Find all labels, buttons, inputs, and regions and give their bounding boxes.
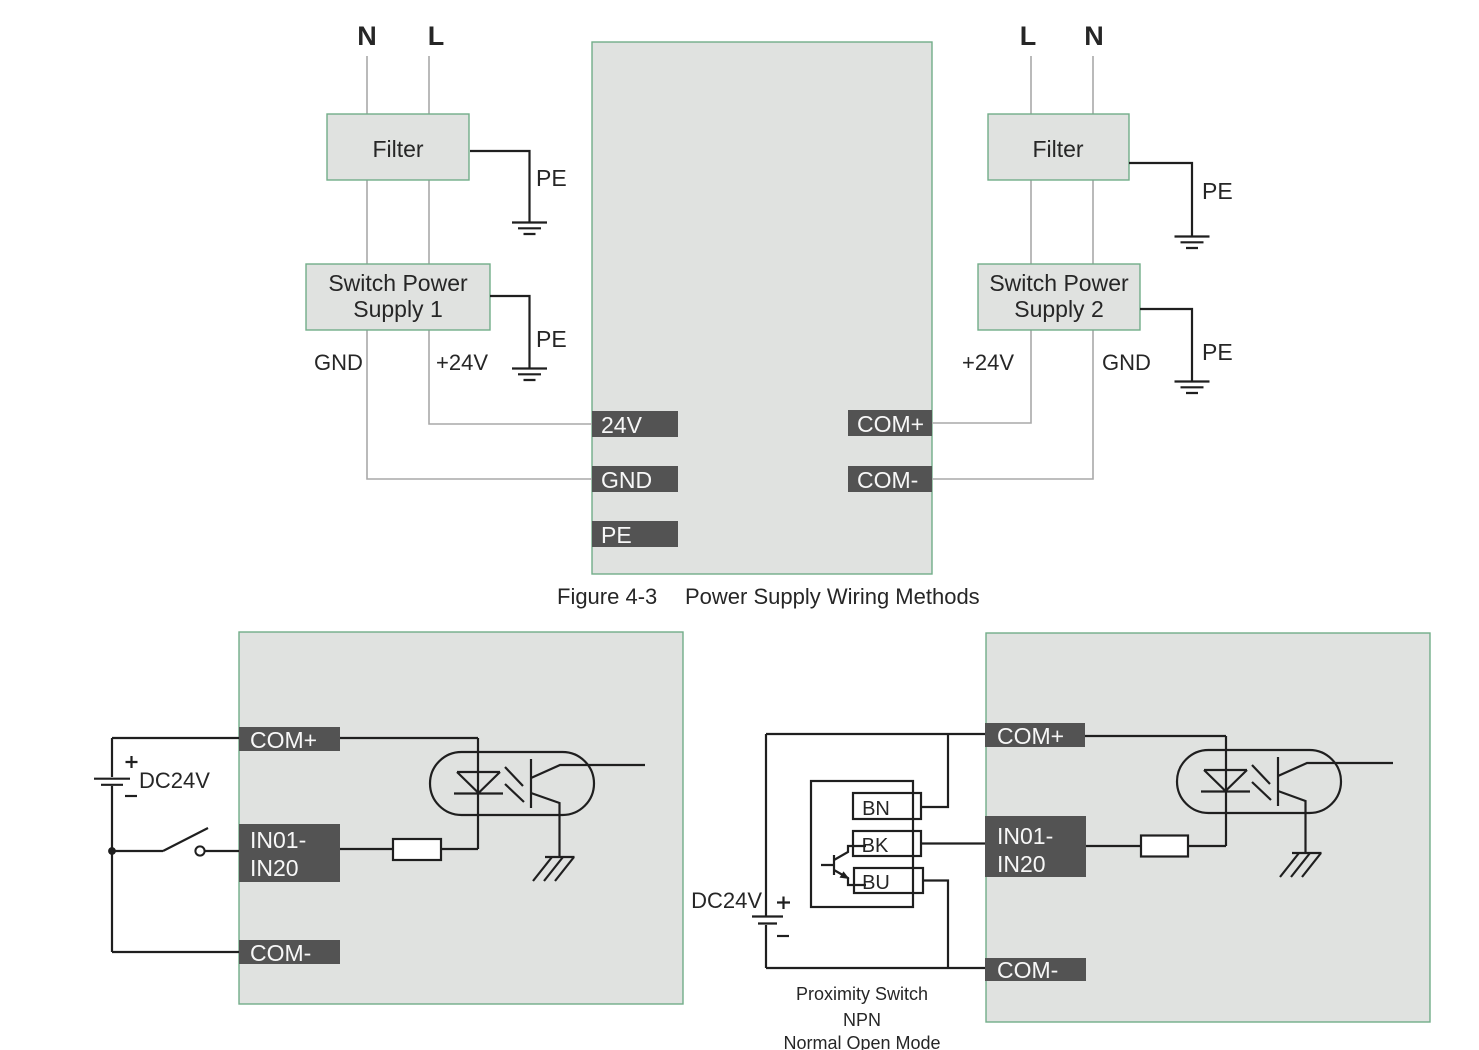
svg-text:+24V: +24V	[436, 350, 488, 375]
svg-text:N: N	[357, 21, 377, 51]
svg-text:BU: BU	[862, 872, 890, 894]
svg-text:Filter: Filter	[1032, 136, 1083, 162]
svg-text:DC24V: DC24V	[691, 888, 762, 913]
svg-text:GND: GND	[1102, 350, 1151, 375]
svg-text:+24V: +24V	[962, 350, 1014, 375]
svg-text:IN20: IN20	[250, 855, 299, 881]
svg-text:Proximity Switch: Proximity Switch	[796, 984, 928, 1004]
svg-text:IN01-: IN01-	[997, 823, 1053, 849]
svg-text:COM+: COM+	[250, 727, 317, 753]
svg-text:Filter: Filter	[372, 136, 423, 162]
svg-text:Switch Power: Switch Power	[328, 270, 468, 296]
svg-text:GND: GND	[601, 467, 652, 493]
svg-text:COM-: COM-	[997, 957, 1058, 983]
svg-text:24V: 24V	[601, 412, 643, 438]
svg-text:PE: PE	[536, 165, 567, 191]
svg-text:Switch Power: Switch Power	[989, 270, 1129, 296]
svg-text:NPN: NPN	[843, 1010, 881, 1030]
svg-text:IN01-: IN01-	[250, 827, 306, 853]
svg-text:L: L	[428, 21, 445, 51]
svg-text:L: L	[1020, 21, 1037, 51]
svg-text:PE: PE	[601, 522, 632, 548]
svg-text:GND: GND	[314, 350, 363, 375]
svg-text:COM-: COM-	[250, 940, 311, 966]
svg-text:COM-: COM-	[857, 467, 918, 493]
svg-text:Figure 4-3: Figure 4-3	[557, 584, 657, 609]
svg-text:Supply 1: Supply 1	[353, 296, 443, 322]
svg-text:Power Supply Wiring Methods: Power Supply Wiring Methods	[685, 584, 980, 609]
svg-text:PE: PE	[1202, 178, 1233, 204]
svg-text:Normal Open Mode: Normal Open Mode	[783, 1033, 940, 1050]
svg-text:COM+: COM+	[857, 411, 924, 437]
svg-text:PE: PE	[1202, 339, 1233, 365]
svg-text:Supply 2: Supply 2	[1014, 296, 1104, 322]
svg-text:IN20: IN20	[997, 851, 1046, 877]
svg-text:PE: PE	[536, 326, 567, 352]
svg-text:N: N	[1084, 21, 1104, 51]
svg-text:COM+: COM+	[997, 723, 1064, 749]
svg-text:DC24V: DC24V	[139, 768, 210, 793]
svg-text:BN: BN	[862, 798, 890, 820]
